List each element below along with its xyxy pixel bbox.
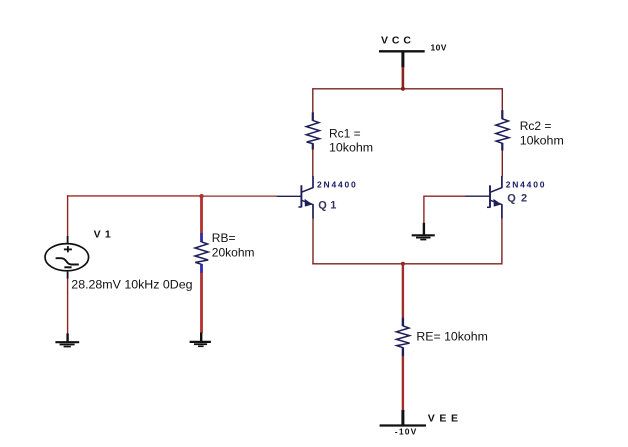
svg-text:Q 2: Q 2 [507, 192, 528, 204]
transistor Q2 [487, 176, 502, 219]
wire RE top (thick) [402, 264, 404, 318]
wire Q2 base to ground [424, 196, 466, 223]
wire V1 top [67, 195, 69, 236]
wire RE bottom (thick) [402, 356, 404, 411]
svg-text:2N4400: 2N4400 [317, 180, 358, 190]
wire bottom rail [312, 263, 502, 265]
wire V1 bottom [67, 278, 69, 334]
ground at Q2 base [412, 223, 435, 240]
wire RB top (thick) [200, 196, 203, 233]
wire Rc2 top [501, 88, 503, 110]
wire Q2 emitter down [501, 218, 503, 265]
svg-text:VEE: VEE [428, 412, 463, 424]
svg-text:20kohm: 20kohm [212, 245, 255, 259]
svg-text:Q 1: Q 1 [318, 199, 336, 211]
svg-text:RE= 10kohm: RE= 10kohm [416, 330, 487, 344]
wire Q2 base lead [465, 195, 489, 197]
svg-text:V 1: V 1 [94, 229, 112, 241]
wire Rc1 top [312, 88, 314, 113]
wire from V1 to RB junction [67, 195, 202, 197]
power VEE [380, 410, 463, 437]
resistor Rc1 [306, 112, 319, 149]
transistor Q1 [298, 176, 313, 219]
svg-text:Rc2 =: Rc2 = [520, 119, 552, 133]
svg-text:Rc1 =: Rc1 = [329, 126, 361, 140]
wire Q1 base lead [277, 195, 301, 197]
source V1 [45, 236, 89, 279]
resistor RE [396, 318, 409, 357]
wire base from RB junction [202, 195, 277, 197]
svg-text:VCC: VCC [381, 35, 415, 47]
node VCC junction [401, 87, 405, 91]
resistor RB [195, 233, 208, 273]
wire RB bottom (thick) [200, 273, 203, 334]
ground below V1 [55, 333, 79, 346]
power VCC [379, 35, 447, 90]
svg-text:28.28mV 10kHz 0Deg: 28.28mV 10kHz 0Deg [71, 277, 192, 291]
svg-text:-10V: -10V [395, 427, 418, 437]
ground below RB [190, 333, 211, 347]
wire Q1 emitter down [312, 218, 314, 265]
node RB junction [199, 194, 203, 198]
svg-text:10kohm: 10kohm [329, 141, 373, 155]
node RE junction [401, 262, 405, 266]
wire top rail [313, 88, 503, 90]
svg-text:RB=: RB= [212, 231, 236, 245]
svg-text:10V: 10V [431, 43, 447, 53]
resistor Rc2 [496, 110, 509, 151]
svg-text:2N4400: 2N4400 [506, 180, 547, 190]
wire Rc2 to Q2 collector [501, 150, 503, 176]
svg-text:10kohm: 10kohm [520, 134, 564, 148]
wire Rc1 to Q1 collector [312, 149, 314, 176]
